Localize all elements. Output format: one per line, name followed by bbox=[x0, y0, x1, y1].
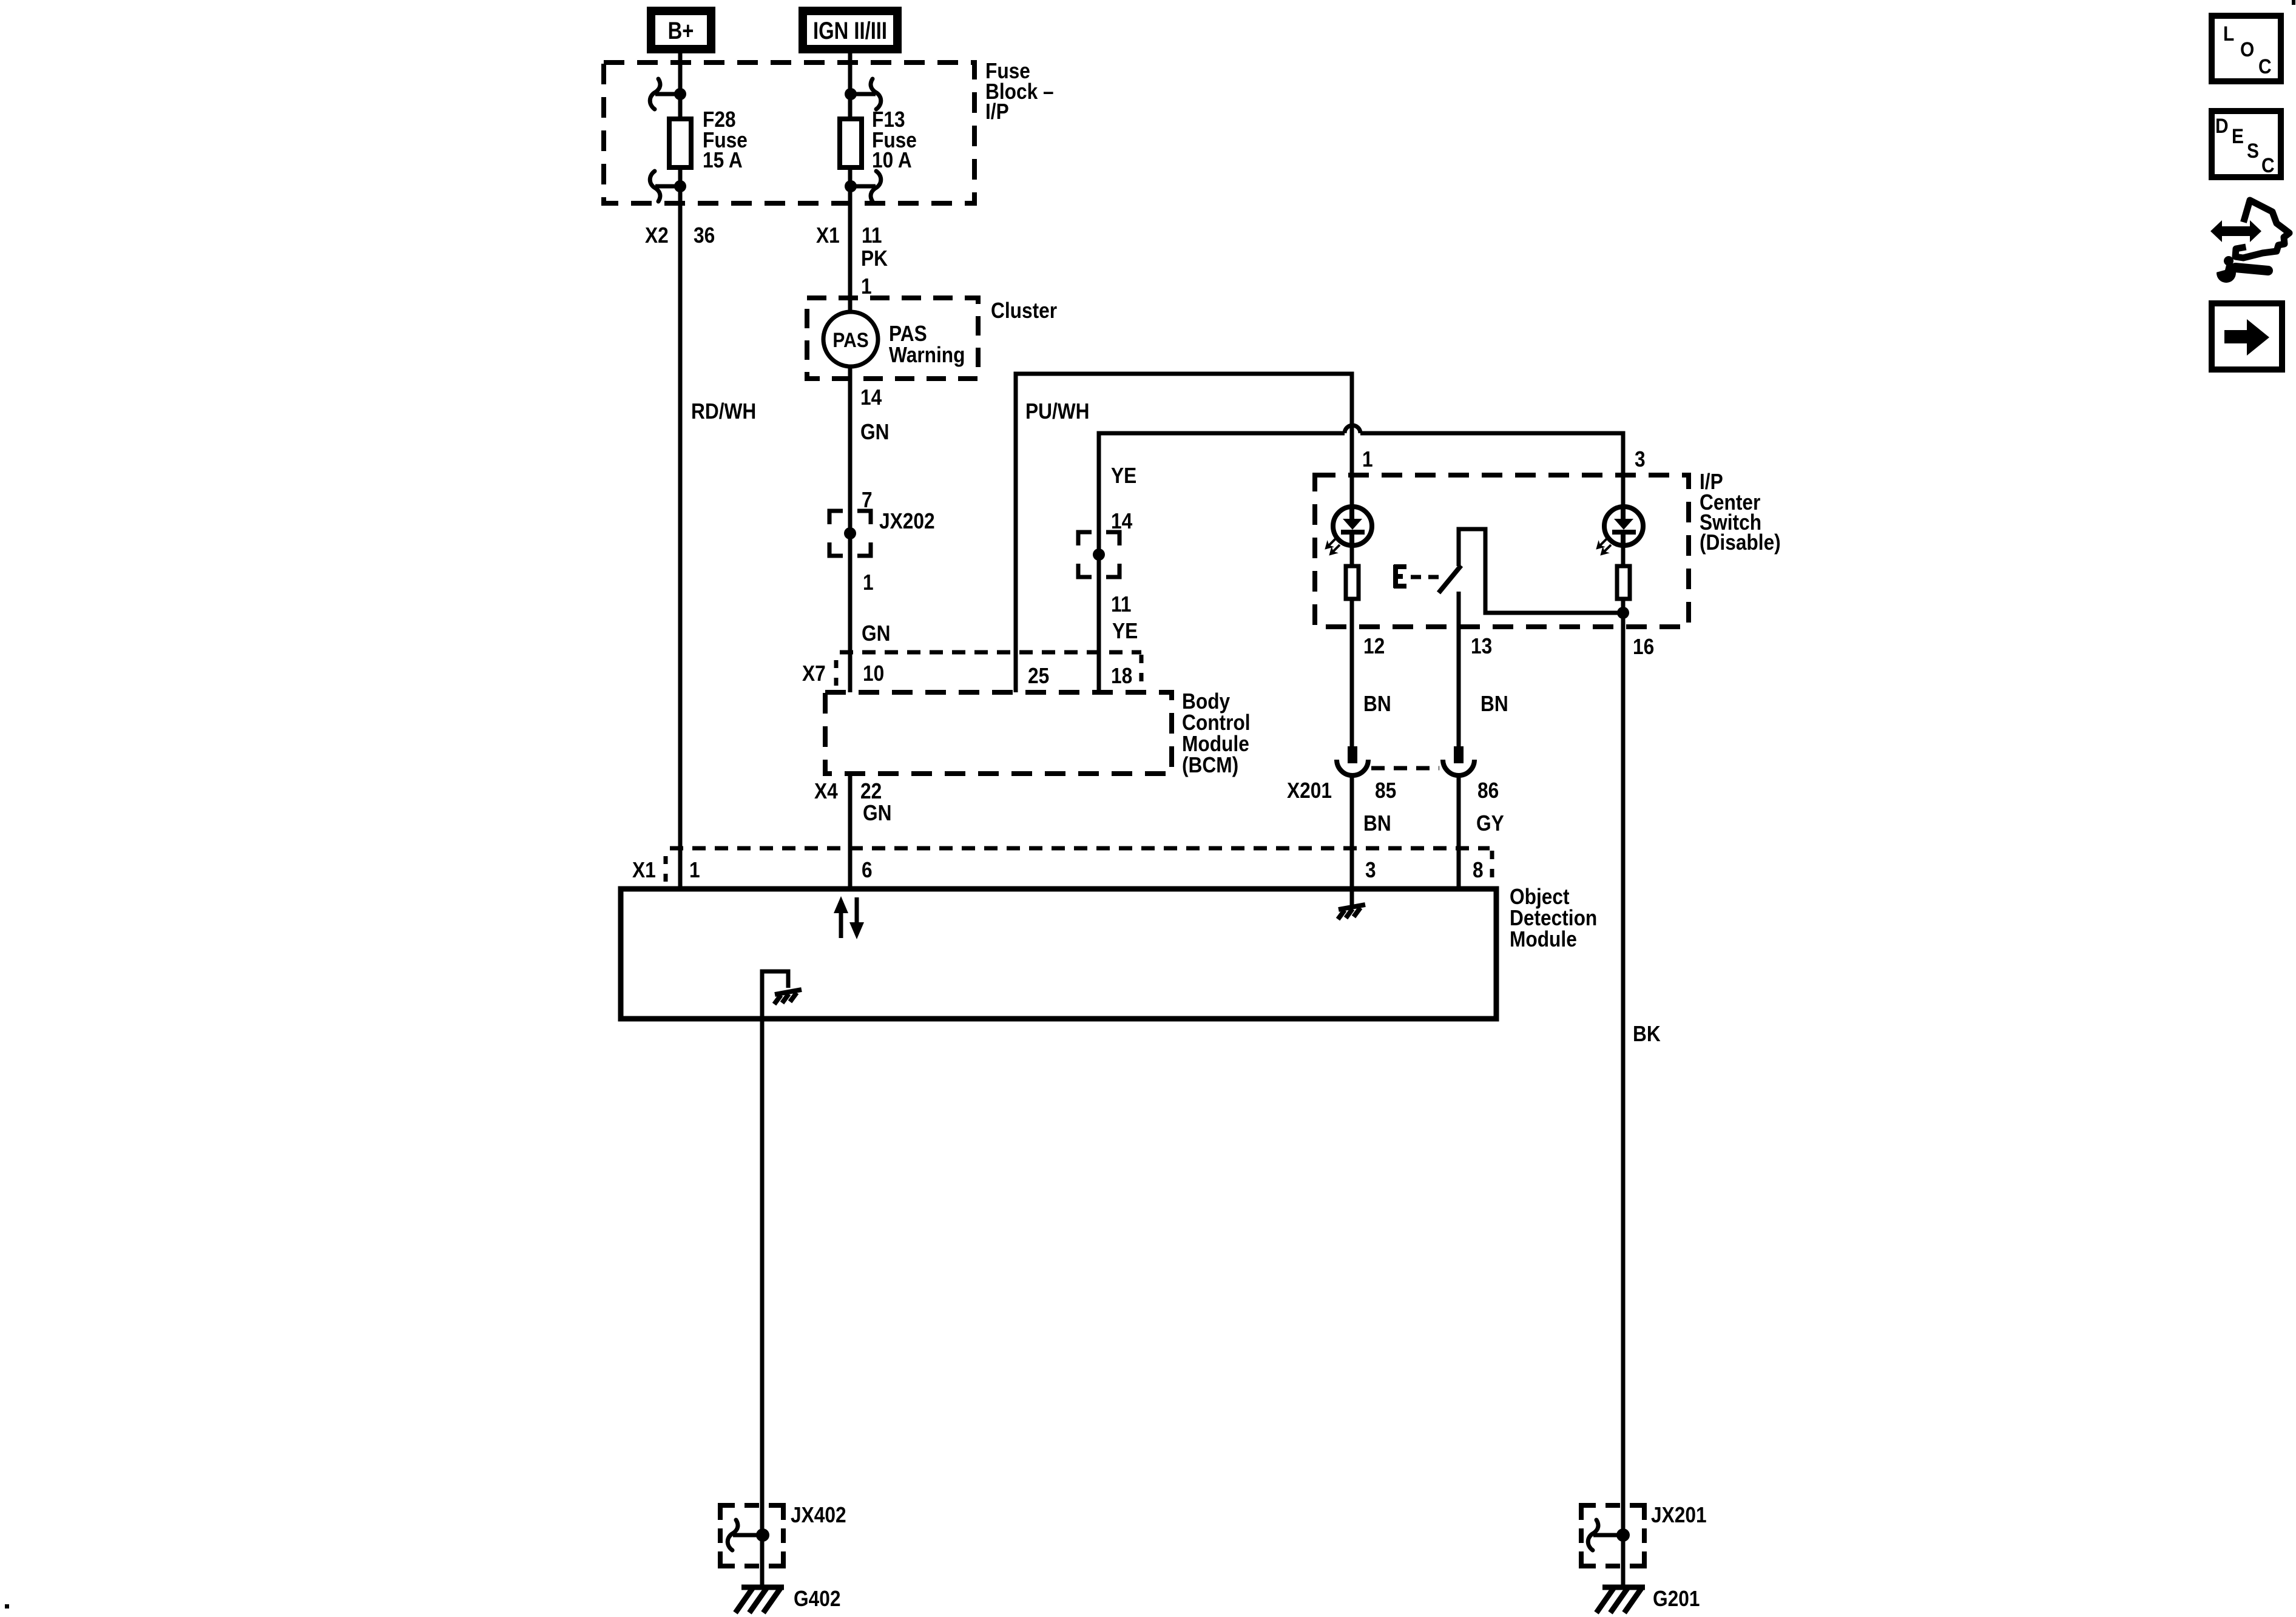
svg-text:11: 11 bbox=[1111, 592, 1131, 616]
ground G201 bbox=[1596, 1587, 1645, 1613]
svg-text:13: 13 bbox=[1471, 634, 1492, 658]
I/P center switch dashed box bbox=[1315, 475, 1689, 627]
switch fixed contact routing to junction bbox=[1459, 529, 1623, 613]
Object Detection Module box bbox=[621, 889, 1496, 1019]
svg-text:(BCM): (BCM) bbox=[1182, 753, 1238, 777]
svg-text:X4: X4 bbox=[814, 779, 838, 803]
svg-text:C: C bbox=[2261, 154, 2275, 177]
svg-text:IGN II/III: IGN II/III bbox=[813, 17, 887, 44]
svg-text:X1: X1 bbox=[632, 858, 656, 882]
svg-text:PK: PK bbox=[861, 246, 888, 271]
splice hook lower right (F13 out) bbox=[845, 171, 881, 201]
svg-text:GY: GY bbox=[1476, 811, 1504, 836]
svg-text:1: 1 bbox=[863, 570, 874, 595]
svg-text:G201: G201 bbox=[1653, 1587, 1700, 1611]
svg-text:D: D bbox=[2215, 114, 2229, 137]
wire PU/WH from BCM pin25 up and right to switch pin1 bbox=[1016, 374, 1352, 748]
serial data down arrow bbox=[849, 897, 864, 939]
svg-text:BN: BN bbox=[1363, 692, 1391, 716]
splice hook upper right (IGN into fuse block) bbox=[845, 79, 881, 109]
label F13 bbox=[872, 107, 917, 172]
connector row X1 (ODM) dotted line bbox=[670, 846, 1490, 851]
ground symbol at ODM pin 3 bbox=[1338, 886, 1365, 919]
wire BN switch pin12 to X201-85 to ODM pin3 bbox=[1350, 601, 1354, 748]
svg-text:BN: BN bbox=[1363, 811, 1391, 836]
svg-text:S: S bbox=[2247, 139, 2259, 162]
svg-text:I/P: I/P bbox=[985, 100, 1009, 124]
wire IGN feed (PK/GN) vertical x=1401 upper bbox=[848, 53, 853, 692]
svg-text:Warning: Warning bbox=[889, 343, 965, 367]
connector X201 terminal 85 bbox=[1337, 746, 1368, 775]
svg-text:X201: X201 bbox=[1287, 778, 1332, 803]
junction dot pin16 bbox=[1617, 607, 1629, 619]
svg-text:G402: G402 bbox=[794, 1587, 840, 1611]
ground symbol inside ODM bottom bbox=[774, 990, 802, 1004]
fuse F28 15A bbox=[669, 119, 691, 167]
svg-text:C: C bbox=[2258, 55, 2272, 78]
fuse block labels bbox=[985, 59, 1054, 124]
svg-text:JX402: JX402 bbox=[791, 1503, 846, 1527]
svg-text:85: 85 bbox=[1375, 778, 1396, 803]
icon LOC box bbox=[2212, 16, 2281, 81]
svg-text:JX202: JX202 bbox=[879, 509, 935, 533]
svg-text:JX201: JX201 bbox=[1651, 1503, 1707, 1527]
svg-text:BK: BK bbox=[1633, 1022, 1661, 1046]
resistor left bbox=[1346, 566, 1359, 599]
svg-text:10 A: 10 A bbox=[872, 148, 912, 172]
svg-text:11: 11 bbox=[862, 223, 882, 248]
svg-text:YE: YE bbox=[1112, 619, 1138, 643]
fuse block I/P dashed box bbox=[604, 62, 974, 203]
svg-text:10: 10 bbox=[863, 661, 884, 686]
svg-text:X1: X1 bbox=[816, 223, 840, 248]
label Body Control Module (BCM) bbox=[1182, 689, 1251, 777]
svg-text:Module: Module bbox=[1510, 927, 1577, 951]
svg-text:8: 8 bbox=[1473, 858, 1484, 882]
connector X201 terminal 86 bbox=[1443, 746, 1474, 775]
svg-text:GN: GN bbox=[862, 621, 891, 646]
wire hop: YE jumps over PU/WH at (2228,714) bbox=[1345, 425, 1360, 433]
label Object Detection Module bbox=[1510, 885, 1597, 951]
icon schematic/wrench bbox=[2210, 200, 2289, 283]
svg-text:7: 7 bbox=[862, 488, 873, 512]
svg-text:14: 14 bbox=[1111, 509, 1132, 533]
splice hook upper left (B+ into fuse block) bbox=[650, 79, 686, 109]
svg-text:6: 6 bbox=[862, 858, 873, 882]
resistor right bbox=[1617, 566, 1630, 599]
connector row X7 (BCM) dotted line bbox=[840, 650, 1141, 655]
svg-text:Cluster: Cluster bbox=[991, 299, 1057, 323]
junction bracket connector on YE wire bbox=[1078, 532, 1119, 577]
svg-text:X7: X7 bbox=[802, 661, 826, 686]
wire YE from BCM pin18 up to horizontal y714 left segment bbox=[1099, 433, 1345, 692]
label PAS Warning bbox=[889, 322, 965, 367]
cluster dashed box bbox=[807, 298, 978, 379]
svg-text:PAS: PAS bbox=[832, 328, 868, 351]
wire YE horizontal right segment to switch pin3 bbox=[1360, 433, 1623, 748]
IGN II/III terminal box bbox=[803, 11, 897, 49]
svg-text:18: 18 bbox=[1111, 664, 1132, 688]
svg-text:L: L bbox=[2223, 22, 2234, 45]
wire BN/GY switch pin13 to X201-86 to ODM pin8 bbox=[1457, 592, 1461, 748]
fuse F13 10A bbox=[840, 119, 862, 167]
svg-text:O: O bbox=[2240, 38, 2254, 61]
svg-text:GN: GN bbox=[860, 420, 890, 444]
svg-text:12: 12 bbox=[1363, 634, 1385, 658]
svg-text:1: 1 bbox=[1362, 447, 1373, 471]
svg-text:3: 3 bbox=[1365, 858, 1376, 882]
junction JX201 dashed box bbox=[1581, 1505, 1644, 1566]
connector X201 dashed link bbox=[1371, 766, 1439, 771]
svg-text:RD/WH: RD/WH bbox=[691, 399, 756, 424]
svg-text:14: 14 bbox=[860, 385, 882, 410]
icon arrow box bbox=[2212, 303, 2282, 370]
ground G402 bbox=[735, 1587, 784, 1613]
svg-text:E: E bbox=[2232, 124, 2244, 147]
label F28 bbox=[703, 107, 748, 172]
svg-text:YE: YE bbox=[1111, 464, 1136, 488]
label I/P Center Switch (Disable) bbox=[1700, 470, 1781, 555]
svg-text:1: 1 bbox=[861, 274, 872, 299]
svg-text:B+: B+ bbox=[668, 17, 694, 44]
svg-text:3: 3 bbox=[1635, 447, 1646, 471]
junction JX402 dashed box bbox=[720, 1505, 783, 1566]
serial data up arrow bbox=[834, 896, 848, 938]
wire B+ feed (RD/WH) vertical x=1121 bbox=[678, 53, 683, 886]
svg-text:GN: GN bbox=[863, 801, 892, 825]
svg-text:1: 1 bbox=[689, 858, 700, 882]
icon DESC box bbox=[2212, 111, 2281, 177]
svg-text:22: 22 bbox=[860, 779, 882, 803]
LED indicator left bbox=[1322, 507, 1372, 559]
LED indicator right bbox=[1593, 507, 1643, 559]
splice hook lower left (F28 out) bbox=[650, 171, 686, 201]
svg-text:BN: BN bbox=[1481, 692, 1508, 716]
svg-text:(Disable): (Disable) bbox=[1700, 530, 1781, 555]
svg-text:86: 86 bbox=[1477, 778, 1499, 803]
wire GN BCM X4-22 to ODM pin6 bbox=[848, 774, 853, 886]
switch: E dashed actuation line bbox=[1394, 565, 1439, 588]
PAS warning indicator circle bbox=[823, 312, 878, 366]
B+ terminal box bbox=[651, 11, 711, 49]
junction JX202 bracket connector bbox=[829, 511, 871, 556]
svg-text:PU/WH: PU/WH bbox=[1025, 399, 1090, 424]
svg-text:16: 16 bbox=[1633, 635, 1654, 659]
svg-text:15 A: 15 A bbox=[703, 148, 743, 172]
svg-text:25: 25 bbox=[1028, 664, 1049, 688]
switch blade (open) bbox=[1439, 565, 1461, 593]
wire ODM internal ground to JX402/G402 bbox=[762, 971, 788, 1587]
svg-text:X2: X2 bbox=[645, 223, 669, 248]
page artifact dots bbox=[2292, 0, 2295, 5]
svg-text:36: 36 bbox=[694, 223, 715, 248]
wire BK switch pin16 to JX201/G201 bbox=[1621, 613, 1626, 1587]
BCM dashed box bbox=[825, 692, 1172, 774]
